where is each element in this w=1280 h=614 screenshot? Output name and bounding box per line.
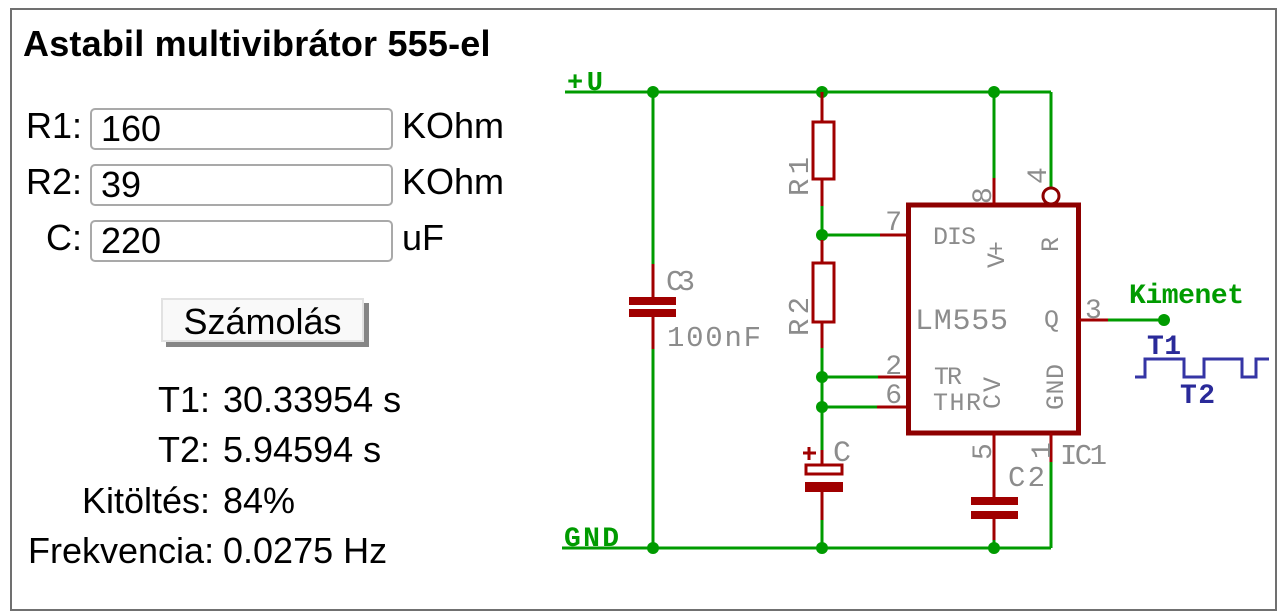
wire junction to pin 7 bbox=[822, 234, 880, 237]
svg-text:V+: V+ bbox=[983, 241, 1012, 268]
svg-text:DIS: DIS bbox=[933, 223, 976, 252]
svg-text:Kimenet: Kimenet bbox=[1129, 281, 1244, 312]
svg-text:8: 8 bbox=[969, 187, 1000, 204]
capacitor C2 bbox=[971, 497, 1018, 540]
svg-text:T2: T2 bbox=[1180, 381, 1215, 412]
op-amp U1: IC1 LM555 box bbox=[909, 205, 1079, 433]
pin 4 inversion circle bbox=[1043, 188, 1059, 204]
capacitor C3 bbox=[629, 264, 676, 349]
wire junction to pin 6 bbox=[822, 406, 877, 409]
svg-text:6: 6 bbox=[885, 381, 902, 412]
wire junction to pin 2 bbox=[822, 376, 878, 379]
pin 8 stub bbox=[993, 178, 996, 205]
svg-text:TR: TR bbox=[934, 363, 962, 392]
svg-text:7: 7 bbox=[885, 208, 902, 239]
resistor R1 bbox=[813, 92, 834, 206]
svg-text:+U: +U bbox=[567, 69, 603, 99]
svg-text:4: 4 bbox=[1024, 167, 1055, 184]
svg-text:R: R bbox=[1037, 237, 1066, 252]
svg-text:100nF: 100nF bbox=[667, 322, 761, 355]
svg-text:C2: C2 bbox=[1008, 462, 1045, 495]
wire GND rail bbox=[562, 547, 1051, 550]
wire +U to C3 bbox=[652, 92, 655, 264]
svg-text:CV: CV bbox=[979, 377, 1008, 409]
pin 3 stub bbox=[1079, 319, 1108, 322]
svg-text:2: 2 bbox=[885, 352, 902, 383]
svg-text:T1: T1 bbox=[1147, 332, 1181, 363]
wire R2 to TR/THR bbox=[821, 348, 824, 407]
junction pin 2 bbox=[816, 371, 828, 383]
wire pin 3 to Kimenet bbox=[1108, 319, 1164, 322]
svg-text:3: 3 bbox=[1085, 296, 1102, 327]
junction +U/R1 bbox=[816, 86, 828, 98]
svg-text:IC1: IC1 bbox=[1060, 440, 1107, 473]
svg-text:C: C bbox=[833, 437, 851, 471]
resistor R2 bbox=[813, 240, 834, 348]
svg-text:Q: Q bbox=[1044, 306, 1059, 335]
svg-text:GND: GND bbox=[564, 524, 619, 555]
junction +U/C3 bbox=[647, 86, 659, 98]
svg-text:5: 5 bbox=[969, 443, 1000, 460]
pin 7 stub bbox=[880, 234, 906, 237]
plus mark of C bbox=[803, 447, 816, 460]
junction GND/C2 bbox=[988, 542, 1000, 554]
wire C2 to GND bbox=[993, 540, 996, 548]
node Kimenet dot bbox=[1158, 314, 1170, 326]
pin 2 stub bbox=[878, 376, 906, 379]
svg-text:C3: C3 bbox=[666, 266, 695, 299]
pin 6 stub bbox=[877, 406, 906, 409]
junction pin 6 bbox=[816, 401, 828, 413]
junction R1/R2/pin7 bbox=[816, 229, 828, 241]
wire GND rail to pin 1 bbox=[1050, 462, 1053, 548]
svg-text:THR: THR bbox=[933, 389, 981, 418]
wire +U to pin 4 bbox=[1050, 92, 1053, 187]
wire C to GND bbox=[821, 520, 824, 548]
junction GND/C bbox=[816, 542, 828, 554]
wire +U to pin 8 bbox=[993, 92, 996, 178]
junction +U/pin8 bbox=[988, 86, 1000, 98]
capacitor C (polarized) bbox=[805, 450, 843, 520]
wire R1 to junction bbox=[821, 206, 824, 240]
junction GND/C3 bbox=[647, 542, 659, 554]
wire +U rail bbox=[565, 91, 1051, 94]
svg-text:GND: GND bbox=[1042, 364, 1071, 410]
svg-text:LM555: LM555 bbox=[915, 305, 1008, 339]
waveform output bbox=[1135, 359, 1269, 377]
pin 1 stub bbox=[1050, 433, 1053, 462]
wire C3 to GND bbox=[652, 349, 655, 548]
svg-text:1: 1 bbox=[1028, 442, 1059, 459]
wire THR junction to C bbox=[821, 407, 824, 450]
pin 5 stub bbox=[993, 433, 996, 497]
